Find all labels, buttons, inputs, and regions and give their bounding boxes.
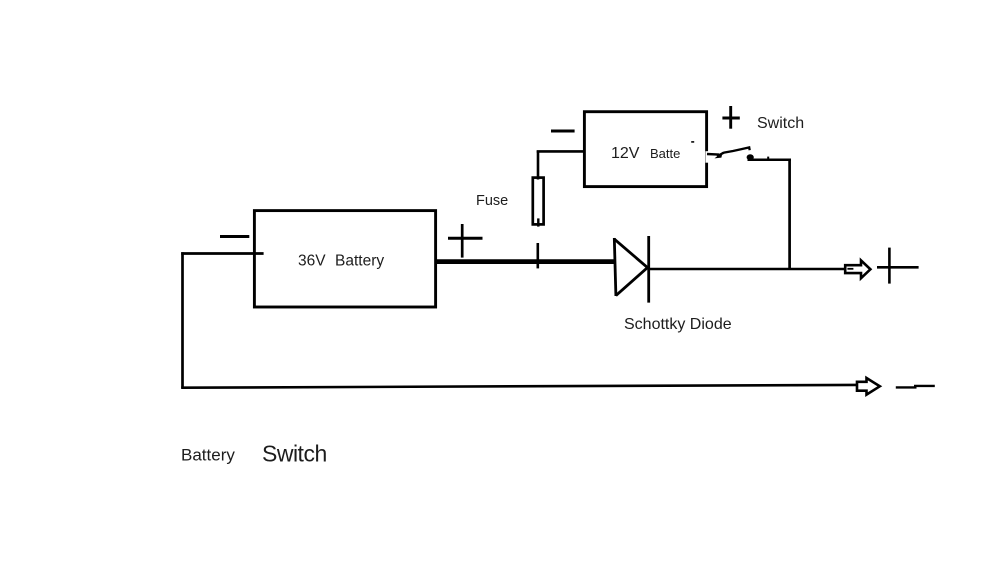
minus dash segment 2 at bottom output bbox=[914, 385, 935, 387]
svg-text:Switch: Switch bbox=[757, 115, 804, 132]
switch S1 contact dot bbox=[747, 154, 754, 160]
switch S1 left stub bbox=[707, 153, 719, 156]
diode D1 cathode bar bbox=[647, 236, 650, 303]
battery B2 12V box bbox=[584, 112, 706, 187]
diode D1 triangle top edge bbox=[614, 239, 648, 268]
svg-text:Battery: Battery bbox=[181, 445, 235, 464]
diode D1 triangle bottom edge bbox=[616, 268, 648, 296]
wire thick positive bus from 36V battery to diode bbox=[436, 259, 616, 264]
svg-text:Battery: Battery bbox=[335, 253, 384, 270]
wire left vertical drop bbox=[181, 252, 184, 388]
fuse top lead bbox=[537, 151, 540, 180]
output arrow (top) bbox=[845, 260, 870, 278]
minus terminal of 36V battery bbox=[220, 235, 249, 238]
fuse bottom inner tick bbox=[537, 218, 539, 226]
switch right terminal wire bbox=[748, 159, 792, 162]
switch S1 barb at blade end bbox=[715, 152, 723, 159]
small nub on switch terminal bbox=[767, 157, 769, 160]
output arrow (bottom) bbox=[857, 378, 880, 395]
fuse bottom lead crossing bus (junction) bbox=[536, 243, 539, 268]
wire stub fuse to 12V battery bbox=[537, 150, 584, 153]
stray dot mark bbox=[691, 141, 694, 143]
svg-text:Fuse: Fuse bbox=[476, 193, 508, 209]
gap in right edge of 12V box where stub exits bbox=[706, 151, 711, 163]
diode D1 anode line bbox=[614, 238, 616, 296]
wire diode output to arrow bbox=[648, 268, 846, 270]
wire from left vertical into 36V battery negative bbox=[181, 252, 263, 255]
svg-text:Switch: Switch bbox=[262, 441, 327, 467]
svg-text:12V: 12V bbox=[611, 145, 640, 162]
wire bottom long run bbox=[181, 385, 856, 388]
svg-text:36V: 36V bbox=[298, 253, 326, 270]
plus mark at top output bbox=[877, 248, 919, 284]
wire vertical from switch down to diode output bbox=[788, 159, 791, 270]
plus mark near switch bbox=[722, 106, 739, 129]
svg-text:Batte: Batte bbox=[650, 146, 680, 161]
switch S1 blade bbox=[717, 147, 750, 156]
minus dash segment 1 at bottom output bbox=[896, 386, 917, 388]
svg-text:Schottky Diode: Schottky Diode bbox=[624, 316, 732, 333]
inner tail mark of top arrow bbox=[847, 268, 853, 270]
fuse F1 body bbox=[533, 178, 544, 225]
plus terminal of 36V battery bbox=[448, 224, 483, 258]
battery B1 36V box bbox=[254, 211, 435, 307]
minus terminal of 12V battery bbox=[551, 130, 575, 133]
